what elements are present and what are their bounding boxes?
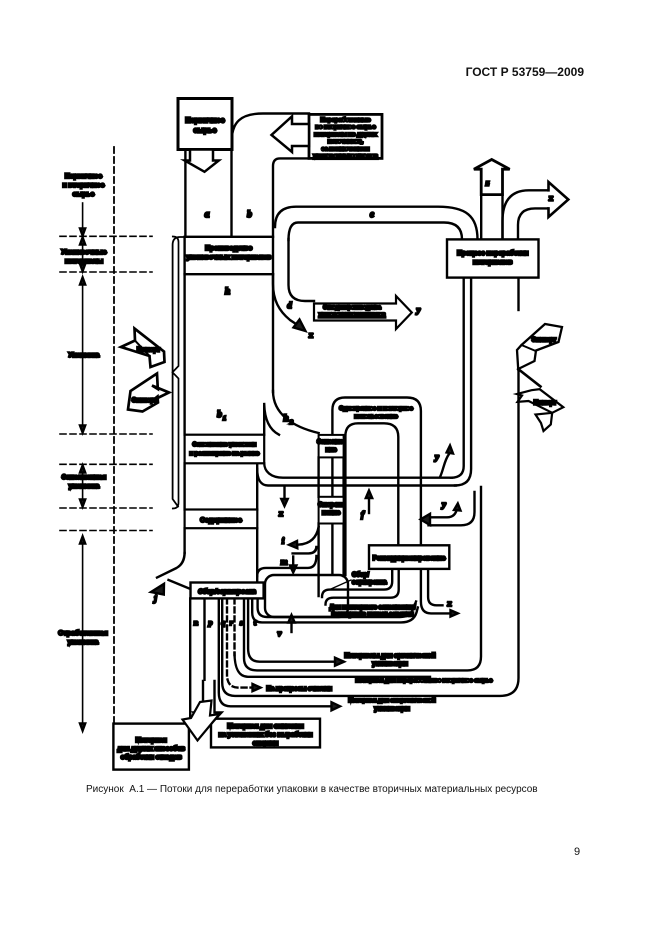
svg-text:сырье: сырье — [73, 191, 95, 198]
wire reuse ring outer wall — [332, 398, 421, 576]
arrowhead into reuse ring from P2 — [421, 514, 431, 525]
svg-text:материалы: материалы — [65, 258, 103, 265]
arrow m down into collection — [292, 557, 294, 569]
svg-text:n: n — [194, 618, 198, 627]
wire dashed cleaning channel r — [233, 598, 235, 655]
box production of packaging materials — [185, 237, 273, 274]
svg-text:На процессы очистки: На процессы очистки — [267, 686, 333, 693]
arrow hollow bent down into other-treatment box — [183, 701, 220, 741]
wire reuse pipe t to reconditioning, top wall — [258, 598, 416, 617]
wire exit j pipe — [157, 553, 185, 578]
arrow 3d export right — [517, 324, 562, 369]
svg-text:Однократное и повторное: Однократное и повторное — [339, 406, 413, 412]
svg-text:Упаковка: Упаковка — [69, 352, 100, 359]
wire recycling x output pipe — [503, 190, 550, 239]
box recycled from other sources — [309, 114, 382, 158]
svg-text:Рекондиционирование: Рекондиционирование — [373, 555, 446, 562]
arrow hollow right x head — [549, 182, 569, 217]
svg-text:Заполне-: Заполне- — [317, 439, 345, 446]
wire emptying column walls (lower into collection node) — [319, 524, 344, 597]
wire pipe a left wall — [184, 150, 186, 237]
arrow hollow up z — [474, 160, 510, 195]
svg-text:сортировка: сортировка — [352, 580, 387, 586]
svg-text:Импорт: Импорт — [137, 347, 160, 354]
wire dashed divider y=236.3 — [60, 235, 152, 237]
svg-text:источников,: источников, — [328, 139, 364, 145]
wire organic recovery arrow from s channel — [248, 598, 335, 661]
wire pipe a right wall / pipe b left wall — [230, 150, 232, 237]
svg-text:e: e — [370, 209, 374, 219]
wire reconditioning waste pipe to arrow x — [421, 569, 451, 614]
svg-text:z: z — [485, 178, 490, 188]
svg-text:упаковка: упаковка — [68, 639, 99, 646]
svg-text:y: y — [441, 499, 446, 509]
svg-text:материалов: материалов — [473, 259, 512, 266]
svg-text:Первичное: Первичное — [65, 173, 102, 180]
svg-text:y: y — [434, 452, 439, 462]
wire system boundary left of production — [173, 237, 185, 507]
svg-text:обработки отходов: обработки отходов — [121, 753, 182, 761]
svg-text:Производство: Производство — [205, 245, 252, 252]
node collection buffer (rounded box) — [265, 575, 348, 617]
svg-text:Материал для сжигания: Материал для сжигания — [227, 723, 304, 730]
svg-text:за исключением: за исключением — [322, 146, 370, 152]
svg-text:ние: ние — [326, 447, 338, 454]
svg-text:j: j — [152, 593, 157, 603]
arrow hollow down from primary raw material — [185, 150, 219, 172]
wire energy channel top wall joining right boundary riser — [222, 368, 518, 696]
wire reuse pipe bottom wall — [252, 598, 418, 622]
wire dashed divider y=434 — [60, 433, 152, 435]
svg-text:x: x — [446, 598, 452, 608]
svg-text:нение: нение — [322, 510, 341, 517]
arrow hollow down into incineration box — [194, 681, 222, 728]
svg-text:b: b — [247, 209, 252, 219]
wire dashed divider y=464.3 — [60, 463, 152, 465]
box primary raw material — [178, 99, 232, 150]
svg-text:Экспорт: Экспорт — [132, 397, 157, 404]
svg-text:f: f — [361, 509, 365, 519]
svg-text:h: h — [283, 413, 288, 423]
box contents — [185, 510, 258, 529]
arrow hollow left from recycled-other-sources box — [272, 116, 310, 152]
wire right boundary riser upper segment — [517, 278, 519, 310]
svg-text:Переработанные: Переработанные — [321, 117, 372, 124]
arrow leak y curved no.1 — [440, 454, 449, 477]
svg-text:и размещение на рынке: и размещение на рынке — [189, 451, 260, 457]
wire left dashed system boundary vertical — [113, 147, 115, 724]
svg-text:Отработавшая: Отработавшая — [58, 629, 107, 637]
arrow loss x below filling pipe — [283, 487, 285, 501]
svg-text:использование: использование — [354, 414, 397, 420]
wire return riser right wall — [455, 278, 471, 486]
wire energy recovery channel bottom wall with arrow — [219, 598, 331, 706]
leader line collection sorting note — [331, 580, 351, 589]
wire flow e top wall — [275, 207, 478, 240]
svg-text:Материал для переработки во вт: Материал для переработки во вторичное сы… — [356, 677, 493, 684]
svg-text:повторного использования: повторного использования — [331, 612, 414, 618]
svg-text:q: q — [221, 618, 225, 627]
svg-text:Содержимое: Содержимое — [200, 517, 242, 524]
box collection sorting — [191, 583, 264, 599]
wire left measure line segment 2 — [82, 242, 84, 266]
wire column walls filling to contents — [185, 463, 258, 509]
svg-text:d: d — [287, 300, 292, 310]
svg-text:Импорт: Импорт — [534, 401, 557, 407]
box filling (reuse loop) — [319, 435, 344, 458]
wire production-waste riser right wall and bend to waste arrow — [289, 239, 315, 301]
wire reconditioning return pipe to emptying — [322, 569, 392, 597]
box emptying — [319, 497, 344, 524]
svg-text:утилизации: утилизации — [374, 706, 410, 713]
wire pipe b outer top bend to recycled-input pipe — [232, 114, 310, 143]
wire main column walls production to filling — [183, 274, 185, 435]
wire production box outlet S-curve with loss x — [273, 274, 296, 324]
svg-text:упаковочных отходов: упаковочных отходов — [313, 153, 378, 159]
svg-text:v: v — [278, 628, 282, 638]
svg-text:r: r — [230, 618, 233, 627]
wire left measure line segment 3 — [82, 282, 84, 427]
arrow 3d import left — [121, 329, 165, 368]
arrow hollow right production waste y — [314, 296, 412, 329]
box reconditioning — [369, 545, 449, 569]
svg-text:сырье: сырье — [194, 126, 217, 135]
arrow 3d export left — [128, 374, 169, 412]
wire emptying column walls (upper) — [319, 457, 344, 496]
wire pipe b inner wall from recycled-input box — [273, 158, 309, 236]
svg-text:y: y — [416, 305, 421, 315]
svg-text:упаковка: упаковка — [69, 483, 100, 490]
wire horizontal pipe bottom wall — [257, 469, 456, 486]
svg-text:i: i — [282, 536, 285, 546]
arrow f up inside ring — [368, 496, 370, 513]
svg-text:Материал: Материал — [136, 737, 167, 744]
svg-text:1: 1 — [223, 415, 226, 422]
svg-text:материалы из других: материалы из других — [314, 132, 377, 138]
svg-text:Материалы для органической: Материалы для органической — [345, 653, 436, 660]
wire return riser from filling to recycling, left wall — [451, 278, 464, 478]
svg-text:b: b — [217, 409, 222, 419]
svg-text:Заполнение упаковки: Заполнение упаковки — [193, 442, 257, 448]
box material for incineration without energy — [211, 719, 320, 748]
svg-text:Отходы производства: Отходы производства — [323, 305, 381, 311]
box materials recycling process — [447, 239, 539, 277]
wire recycling z pipe walls — [481, 195, 502, 240]
wire flow e bottom wall — [289, 223, 463, 241]
wire left measure line segment 4 — [82, 470, 84, 502]
svg-text:упаковочных материалов: упаковочных материалов — [319, 312, 386, 318]
svg-text:Первичное: Первичное — [185, 116, 224, 125]
svg-text:Для повторного заполнения/: Для повторного заполнения/ — [329, 605, 415, 611]
svg-text:Опорож-: Опорож- — [318, 502, 344, 509]
wire h2 branch outer wall — [273, 391, 319, 433]
svg-text:x: x — [308, 330, 314, 340]
wire column walls contents to collection — [185, 528, 258, 582]
svg-text:Экспорт: Экспорт — [532, 338, 556, 344]
wire horizontal pipe from filling box, top wall — [264, 463, 452, 477]
svg-text:во вторичное сырье: во вторичное сырье — [315, 125, 376, 131]
wire elbow below emptying — [293, 547, 317, 553]
arrow v up into collection node — [290, 620, 292, 632]
arrow i curved from emptying — [299, 527, 319, 545]
wire channel n walls down to disposal boxes — [189, 598, 191, 719]
box filling and placing on market — [185, 435, 265, 464]
svg-text:упаковочных материалов: упаковочных материалов — [186, 254, 271, 261]
arrowhead loss x from production — [294, 320, 306, 332]
svg-text:и вторичное: и вторичное — [63, 182, 105, 189]
wire dashed divider y=272 — [60, 271, 152, 273]
svg-text:Упаковочные: Упаковочные — [61, 249, 106, 256]
svg-text:Сбор/: Сбор/ — [352, 572, 369, 579]
wire left measure line segment 5 — [82, 541, 84, 725]
svg-text:s: s — [239, 618, 243, 627]
wire dashed divider y=530.5 — [60, 530, 152, 532]
svg-text:p: p — [208, 618, 213, 627]
box material for other waste treatment — [113, 724, 188, 770]
wire left measure line segment 1 — [82, 203, 84, 231]
wire dashed divider y=508 — [60, 507, 152, 509]
svg-text:утилизации: утилизации — [372, 661, 408, 668]
svg-text:h: h — [225, 286, 230, 296]
wire reuse pipe P2 bottom wall — [429, 492, 475, 525]
wire secondary raw pipe lower wall — [235, 653, 431, 677]
svg-text:энергии: энергии — [253, 740, 278, 747]
svg-text:на установках без выработки: на установках без выработки — [219, 731, 313, 739]
svg-text:для других способов: для других способов — [117, 745, 185, 753]
svg-text:Материал для энергетической: Материал для энергетической — [348, 697, 436, 704]
svg-text:a: a — [205, 209, 210, 219]
svg-text:Процесс переработки: Процесс переработки — [457, 249, 528, 257]
svg-text:Заполненная: Заполненная — [62, 474, 106, 481]
brace packaging rows — [173, 237, 179, 509]
wire elbow joining contents column — [257, 556, 316, 576]
svg-text:x: x — [278, 508, 284, 518]
wire h2 branch inner wall — [264, 404, 279, 435]
wire secondary raw material return pipe (from riser base) — [244, 487, 481, 670]
svg-text:x: x — [548, 193, 554, 203]
svg-text:m: m — [281, 557, 288, 567]
wire reuse ring inner wall — [345, 423, 398, 575]
svg-text:Сбор/сортировка: Сбор/сортировка — [198, 588, 256, 596]
wire reuse pipe P2 top wall with leak y no.2 — [431, 508, 457, 517]
arrow 3d import right — [518, 369, 540, 387]
